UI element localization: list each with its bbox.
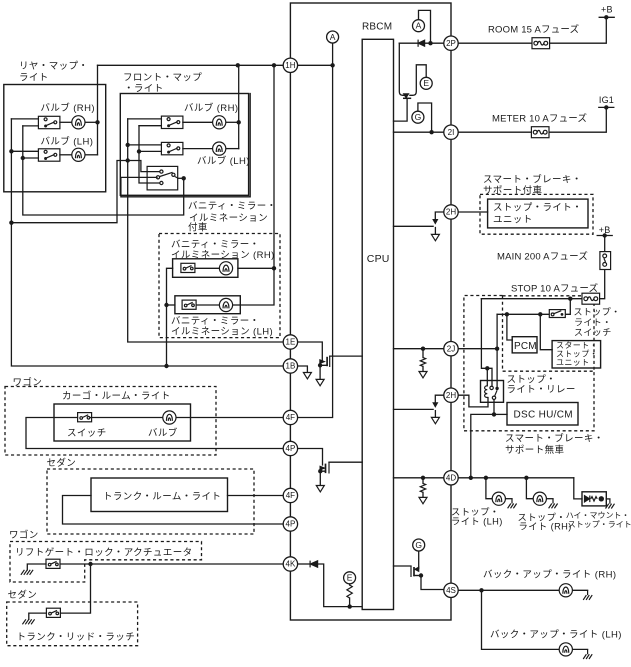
svg-text:1B: 1B xyxy=(286,362,296,371)
svg-text:フロント・マップ: フロント・マップ xyxy=(123,73,202,84)
svg-text:1H: 1H xyxy=(285,61,295,70)
svg-text:バック・アップ・ライト (LH): バック・アップ・ライト (LH) xyxy=(490,630,622,641)
svg-text:スマート・ブレーキ・: スマート・ブレーキ・ xyxy=(505,433,604,445)
svg-text:A: A xyxy=(416,21,422,31)
svg-text:スイッチ: スイッチ xyxy=(574,328,612,338)
svg-text:ハイ・マウント・: ハイ・マウント・ xyxy=(566,511,630,520)
svg-text:E: E xyxy=(347,573,353,583)
svg-text:バック・アップ・ライト (RH): バック・アップ・ライト (RH) xyxy=(483,570,616,581)
svg-text:セダン: セダン xyxy=(8,589,38,601)
svg-text:・ライト: ・ライト xyxy=(124,84,164,95)
svg-text:4S: 4S xyxy=(446,586,456,595)
svg-text:4P: 4P xyxy=(286,520,296,529)
svg-text:2J: 2J xyxy=(447,344,455,353)
svg-text:付車: 付車 xyxy=(188,222,208,234)
svg-text:カーゴ・ルーム・ライト: カーゴ・ルーム・ライト xyxy=(62,390,171,402)
svg-text:バニティ・ミラー・: バニティ・ミラー・ xyxy=(188,201,277,212)
svg-text:+B: +B xyxy=(599,225,611,235)
svg-text:ライト (RH): ライト (RH) xyxy=(519,522,572,532)
svg-text:ストップ・: ストップ・ xyxy=(451,507,500,517)
svg-text:イルミネーション (LH): イルミネーション (LH) xyxy=(171,326,273,337)
svg-text:2P: 2P xyxy=(446,39,456,48)
svg-text:E: E xyxy=(423,78,429,88)
svg-text:リフトゲート・ロック・アクチュエータ: リフトゲート・ロック・アクチュエータ xyxy=(15,546,193,558)
svg-text:ROOM 15 Aフューズ: ROOM 15 Aフューズ xyxy=(488,24,580,36)
svg-text:スマート・ブレーキ・: スマート・ブレーキ・ xyxy=(483,174,582,186)
svg-text:4F: 4F xyxy=(286,413,295,422)
svg-text:トランク・リッド・ラッチ: トランク・リッド・ラッチ xyxy=(17,632,136,643)
svg-text:ユニット: ユニット xyxy=(556,358,590,367)
svg-text:スイッチ: スイッチ xyxy=(67,428,107,439)
svg-text:2H: 2H xyxy=(446,208,456,217)
svg-text:ライト: ライト xyxy=(19,72,49,83)
svg-text:サポート無車: サポート無車 xyxy=(505,444,565,456)
svg-text:STOP 10 Aフューズ: STOP 10 Aフューズ xyxy=(511,283,599,295)
svg-text:トランク・ルーム・ライト: トランク・ルーム・ライト xyxy=(103,492,221,503)
svg-text:バニティ・ミラー・: バニティ・ミラー・ xyxy=(171,240,260,251)
svg-text:ライト・リレー: ライト・リレー xyxy=(507,385,576,396)
svg-text:サポート付車: サポート付車 xyxy=(483,185,543,197)
svg-text:バルブ (RH): バルブ (RH) xyxy=(41,102,95,114)
svg-text:ストップ・ライト: ストップ・ライト xyxy=(568,520,631,529)
svg-text:CPU: CPU xyxy=(367,253,390,265)
svg-text:バルブ (LH): バルブ (LH) xyxy=(41,136,94,148)
svg-text:ライト (LH): ライト (LH) xyxy=(451,517,503,527)
svg-text:リヤ・マップ・: リヤ・マップ・ xyxy=(19,61,88,72)
svg-text:4K: 4K xyxy=(286,560,296,569)
svg-text:G: G xyxy=(415,540,422,550)
svg-text:ワゴン: ワゴン xyxy=(13,377,43,389)
svg-text:バルブ (LH): バルブ (LH) xyxy=(197,155,250,167)
svg-text:4P: 4P xyxy=(286,444,296,453)
svg-text:IG1: IG1 xyxy=(599,95,614,105)
svg-text:RBCM: RBCM xyxy=(362,22,392,33)
svg-text:セダン: セダン xyxy=(47,457,77,469)
svg-text:DSC HU/CM: DSC HU/CM xyxy=(514,410,573,421)
svg-text:METER 10 Aフューズ: METER 10 Aフューズ xyxy=(492,113,588,125)
svg-text:ワゴン: ワゴン xyxy=(9,529,39,541)
svg-text:2H: 2H xyxy=(446,391,456,400)
svg-text:イルミネーション (RH): イルミネーション (RH) xyxy=(171,250,275,261)
svg-text:+B: +B xyxy=(601,5,613,15)
svg-text:ライト・: ライト・ xyxy=(574,317,612,327)
svg-text:PCM: PCM xyxy=(514,341,537,352)
svg-text:MAIN 200 Aフューズ: MAIN 200 Aフューズ xyxy=(497,251,588,263)
svg-text:バルブ (RH): バルブ (RH) xyxy=(184,102,238,114)
svg-text:4F: 4F xyxy=(286,491,295,500)
svg-text:1E: 1E xyxy=(286,338,296,347)
svg-text:ストップ・ライト・: ストップ・ライト・ xyxy=(493,203,582,214)
svg-text:A: A xyxy=(330,32,336,42)
svg-text:バニティ・ミラー・: バニティ・ミラー・ xyxy=(171,316,260,327)
svg-text:G: G xyxy=(415,112,422,122)
svg-text:ユニット: ユニット xyxy=(493,215,533,226)
svg-text:4D: 4D xyxy=(446,474,456,483)
svg-text:2I: 2I xyxy=(448,128,455,137)
svg-text:ストップ・: ストップ・ xyxy=(574,307,621,317)
svg-text:バルブ: バルブ xyxy=(148,427,178,439)
